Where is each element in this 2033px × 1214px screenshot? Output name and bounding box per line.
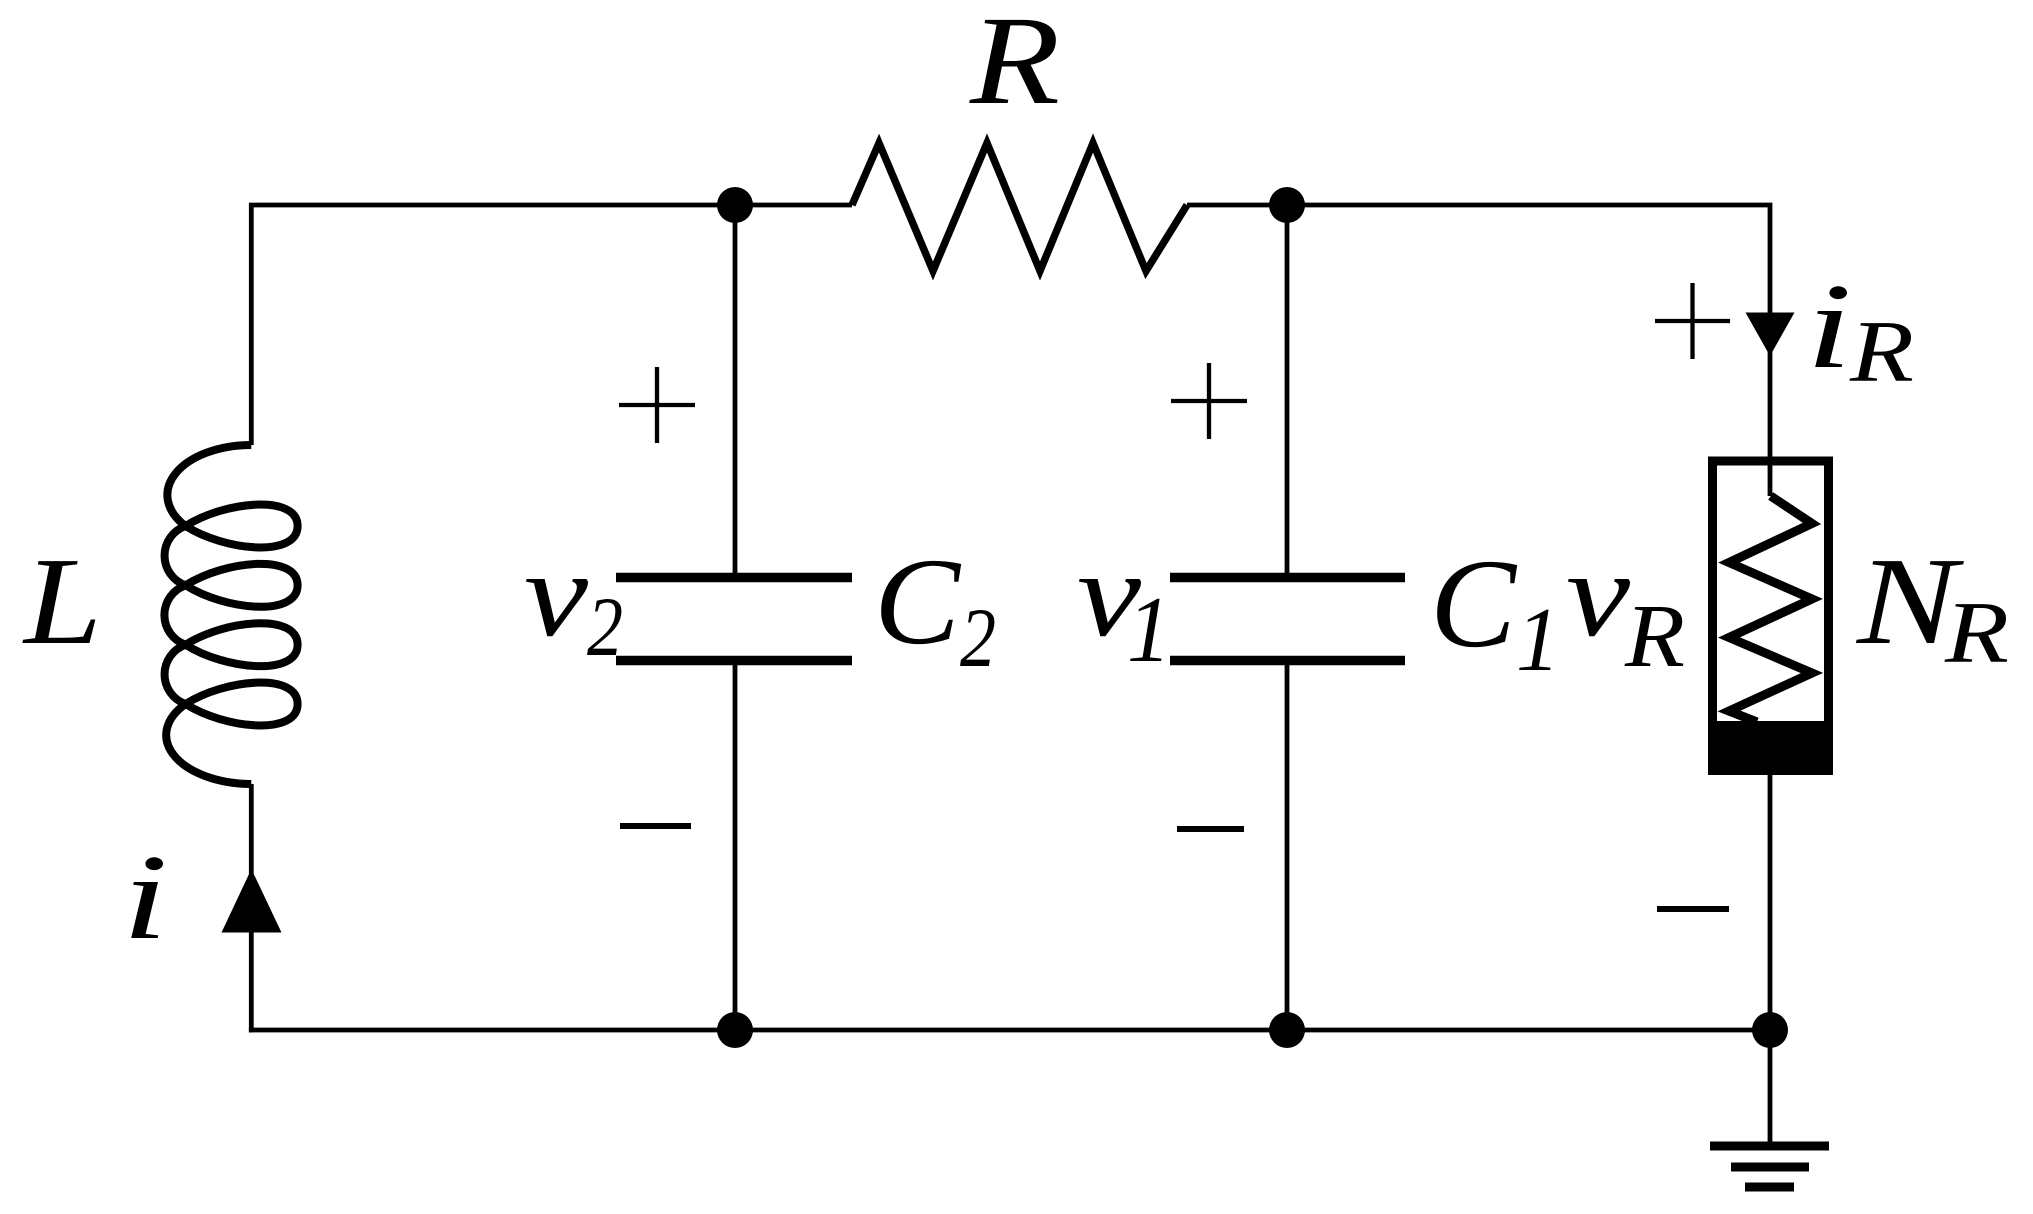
- ground: [1710, 1146, 1829, 1187]
- svg-text:R: R: [1624, 587, 1685, 686]
- arrow i: [222, 869, 282, 933]
- capacitor C1: [1170, 578, 1405, 661]
- svg-text:L: L: [22, 533, 102, 671]
- wire: left rail lower: [249, 784, 254, 1032]
- label v2: [524, 527, 623, 674]
- svg-text:2: 2: [960, 591, 996, 685]
- label vR: [1566, 527, 1685, 686]
- svg-text:v: v: [1566, 527, 1631, 662]
- NR zigzag: [1729, 496, 1812, 722]
- wire: right rail lower: [1768, 775, 1773, 1030]
- svg-text:i: i: [1806, 259, 1852, 394]
- plus C1: [1171, 363, 1247, 439]
- label iR: [1806, 259, 1914, 401]
- capacitor C2: [616, 578, 852, 661]
- svg-text:i: i: [122, 830, 168, 965]
- label NR: [1856, 533, 2009, 682]
- arrow iR: [1746, 313, 1795, 357]
- junction dot bottom-left: [717, 1012, 753, 1048]
- svg-text:C: C: [1430, 534, 1517, 674]
- inductor L: [164, 445, 297, 784]
- minus NR: [1657, 906, 1729, 912]
- label C2: [874, 533, 996, 685]
- minus C2: [620, 823, 691, 829]
- svg-text:R: R: [1944, 585, 2009, 682]
- svg-text:2: 2: [587, 580, 623, 674]
- plus C2: [619, 367, 695, 443]
- wire: C1 branch upper: [1285, 205, 1290, 573]
- junction dot top-right: [1269, 187, 1305, 223]
- nonlinear resistor NR box: [1713, 461, 1829, 770]
- resistor R: [852, 143, 1187, 271]
- wire: C2 branch lower: [733, 664, 738, 1030]
- wire: top wire right segment + right rail upper: [1187, 205, 1770, 496]
- junction dot bottom-mid: [1269, 1012, 1305, 1048]
- wire: bottom wire: [249, 1028, 1770, 1033]
- label v1: [1077, 527, 1171, 682]
- svg-text:C: C: [874, 533, 961, 670]
- label C1: [1430, 534, 1560, 690]
- svg-text:1: 1: [1516, 589, 1560, 690]
- wire: ground lead: [1768, 1030, 1773, 1143]
- svg-text:R: R: [1849, 304, 1914, 401]
- wire: left rail upper + top wire left segment: [251, 205, 852, 445]
- minus C1: [1177, 826, 1244, 832]
- wire: C2 branch upper: [733, 205, 738, 573]
- junction dot top-left: [717, 187, 753, 223]
- wire: C1 branch lower: [1285, 664, 1290, 1030]
- NR bottom bar: [1708, 721, 1833, 775]
- junction dot bottom-right: [1752, 1012, 1788, 1048]
- svg-text:R: R: [969, 0, 1060, 131]
- svg-text:1: 1: [1127, 578, 1171, 682]
- plus NR: [1655, 283, 1730, 359]
- svg-text:v: v: [524, 527, 589, 662]
